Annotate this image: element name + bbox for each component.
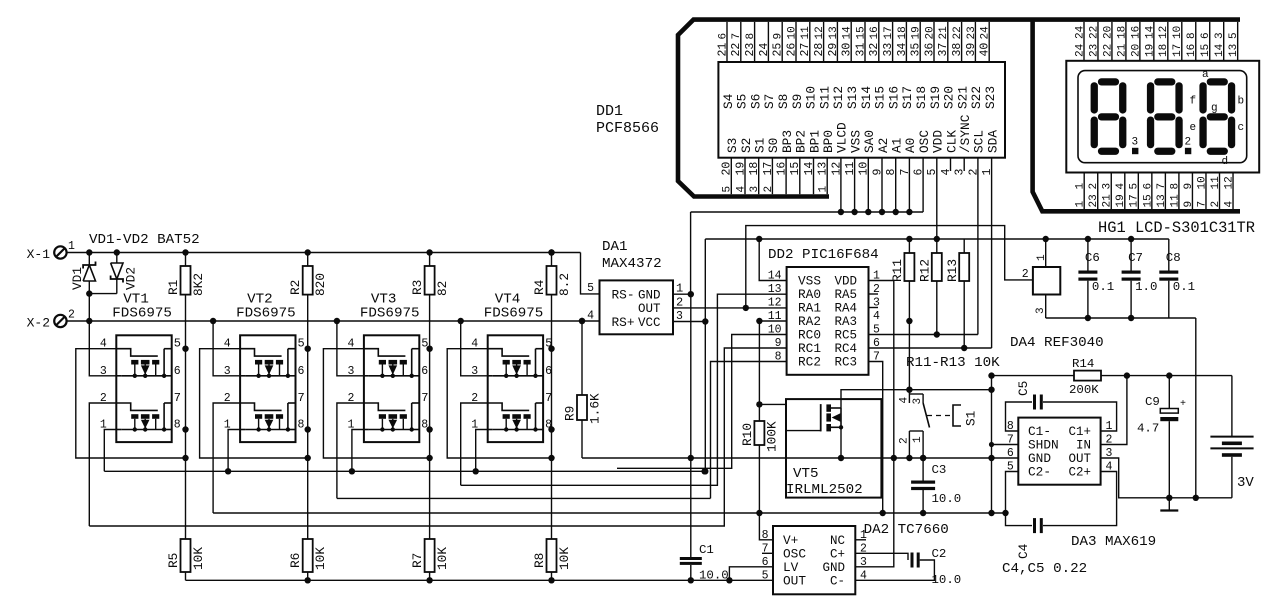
svg-text:C6: C6: [1085, 251, 1100, 265]
svg-text:17: 17: [883, 26, 895, 39]
svg-text:18: 18: [897, 26, 909, 39]
svg-text:c: c: [1238, 122, 1245, 134]
HG1 bottom pin 9: [1191, 173, 1193, 210]
resistor R7 10K: [425, 539, 435, 572]
IC DD2 PIC16F684 body: [787, 267, 869, 375]
wire VCC column: [704, 239, 706, 471]
HG1 bottom pin 7: [1164, 173, 1166, 210]
svg-text:14: 14: [842, 26, 854, 40]
wire gate2 bus VT4 to DD2 RA0: [461, 294, 787, 485]
wire DD2 RA2 pin11 to R10 column: [759, 321, 786, 421]
HG1 top pin 22: [1111, 22, 1113, 61]
svg-text:24: 24: [758, 43, 771, 57]
svg-text:17: 17: [762, 162, 775, 176]
svg-text:3: 3: [912, 398, 924, 405]
DD1 pin 14 (BP1): [813, 158, 815, 195]
svg-text:7: 7: [298, 391, 305, 405]
svg-text:RS+: RS+: [612, 315, 635, 330]
HG1 bottom pin 10: [1205, 173, 1207, 210]
HG1 top pin 14: [1223, 22, 1225, 61]
svg-text:8: 8: [174, 419, 181, 432]
svg-text:10.0: 10.0: [932, 492, 962, 506]
svg-text:8.2: 8.2: [557, 273, 572, 296]
wire R10 bottom to bus and DA2 V+: [758, 445, 760, 513]
wire VT2 pin4 gate link: [200, 349, 308, 458]
svg-text:7: 7: [421, 391, 428, 405]
svg-text:3V: 3V: [1237, 475, 1254, 491]
svg-text:39: 39: [965, 43, 978, 57]
DD1 pin 25 (S8): [781, 22, 783, 62]
HG1 top pin 13: [1237, 22, 1239, 61]
wire DA1 OUT pin2 to DD2 RA1: [673, 307, 787, 309]
wire gate2 bus VT1 to DD2 RC1: [89, 348, 786, 526]
wire RC0 line to DD2: [617, 335, 787, 469]
svg-text:22: 22: [1102, 44, 1114, 57]
svg-text:10: 10: [1172, 26, 1184, 39]
svg-text:82: 82: [435, 281, 450, 296]
svg-text:16: 16: [869, 26, 881, 39]
svg-text:S8: S8: [776, 94, 791, 109]
svg-text:21: 21: [1116, 43, 1128, 57]
svg-text:SDA: SDA: [985, 130, 1000, 153]
wire DA3 OUT to battery minus: [1101, 458, 1232, 498]
DD1 pin 33 (S16): [892, 22, 894, 62]
svg-text:NC: NC: [830, 534, 845, 548]
svg-text:10K: 10K: [313, 547, 328, 570]
svg-text:DA3 MAX619: DA3 MAX619: [1071, 534, 1156, 550]
svg-text:6: 6: [1142, 183, 1154, 190]
svg-text:VD2: VD2: [124, 267, 139, 290]
svg-text:34: 34: [896, 43, 909, 57]
svg-text:13: 13: [768, 283, 782, 296]
HG1 top pin 17: [1181, 22, 1183, 61]
DD1 pin 39 (S22): [974, 22, 976, 62]
svg-text:26: 26: [785, 43, 798, 57]
svg-text:OUT: OUT: [638, 302, 661, 316]
svg-text:IRLML2502: IRLML2502: [786, 482, 863, 498]
LCD decimal point 3: [1132, 148, 1138, 154]
wire source bus (VT pin1 common): [104, 470, 704, 472]
svg-text:1: 1: [676, 282, 683, 296]
svg-text:S11: S11: [817, 86, 832, 109]
svg-text:R11: R11: [890, 259, 905, 282]
resistor R11 10K: [906, 236, 912, 242]
HG1 top pin 19: [1153, 22, 1155, 61]
DD1 pin 16 (BP3): [785, 158, 787, 195]
svg-text:RC5: RC5: [834, 329, 857, 343]
svg-text:2: 2: [1185, 137, 1192, 149]
svg-text:24: 24: [1074, 43, 1086, 57]
svg-text:S19: S19: [928, 86, 943, 109]
svg-text:24: 24: [1074, 25, 1086, 39]
wire cap ground rail: [1046, 317, 1196, 319]
svg-text:20: 20: [721, 162, 734, 176]
wire R12 to RC5: [936, 281, 938, 335]
svg-text:S21: S21: [955, 86, 970, 109]
svg-text:R3: R3: [410, 280, 425, 295]
svg-text:4: 4: [735, 186, 747, 193]
wire DD2 VDD pin1 column: [855, 281, 894, 567]
svg-text:C4,C5 0.22: C4,C5 0.22: [1002, 561, 1087, 577]
resistor R4 8.2: [547, 266, 557, 295]
svg-text:40: 40: [979, 43, 992, 57]
svg-text:C3: C3: [932, 463, 947, 477]
svg-text:35: 35: [910, 43, 923, 57]
wire DD1 SDA column: [991, 158, 993, 348]
svg-text:5: 5: [174, 337, 181, 351]
HG1 bottom pin 4: [1124, 173, 1126, 210]
wire R3 to VT pins and gate bus: [429, 295, 431, 539]
DD1 /SYNC stub: [963, 158, 965, 171]
wire ground rail under DD1: [691, 211, 924, 213]
wire VT3 pin3 to X-2 rail: [337, 321, 364, 376]
svg-text:10: 10: [768, 324, 782, 337]
svg-text:11: 11: [1169, 194, 1181, 208]
svg-text:S9: S9: [790, 94, 805, 109]
svg-text:15: 15: [1200, 44, 1212, 57]
capacitor C8 0.1: [1168, 239, 1170, 271]
HG1 bottom pin 5: [1137, 173, 1139, 210]
svg-text:12: 12: [1223, 176, 1235, 189]
svg-text:C2-: C2-: [1028, 465, 1051, 480]
svg-text:14: 14: [768, 270, 782, 283]
svg-text:0.1: 0.1: [1092, 280, 1114, 294]
svg-text:HG1 LCD-S301C31TR: HG1 LCD-S301C31TR: [1098, 219, 1255, 237]
DD1 pin 40 (S23): [988, 22, 990, 62]
wire VT2 pin3 to X-2 rail: [213, 321, 240, 376]
svg-text:1.0: 1.0: [1135, 280, 1157, 294]
svg-text:S13: S13: [845, 86, 860, 109]
IC DA2 TC7660 body: [773, 526, 855, 594]
HG1 bottom pin 6: [1151, 173, 1153, 210]
svg-text:R4: R4: [532, 279, 547, 295]
svg-text:4: 4: [899, 397, 911, 404]
svg-text:7: 7: [1156, 183, 1168, 190]
DD1 pin 36 (S19): [933, 22, 935, 62]
diode VD1: [88, 253, 90, 266]
resistor R5 10K: [181, 539, 191, 572]
capacitor C3 10.0: [922, 458, 924, 481]
switch S1: [906, 387, 912, 393]
wire R2 to VT pins and gate bus: [307, 295, 309, 539]
svg-text:22: 22: [730, 43, 743, 57]
svg-text:R12: R12: [918, 259, 933, 282]
DD1 pin 31 (S14): [864, 22, 866, 62]
svg-text:15: 15: [1142, 194, 1154, 207]
wire DD2 RC2 riser: [711, 362, 787, 499]
svg-text:C4: C4: [1016, 543, 1031, 559]
capacitor C4 0.22: [1006, 472, 1033, 526]
svg-text:18: 18: [1158, 44, 1170, 57]
svg-text:18: 18: [748, 162, 761, 176]
svg-text:29: 29: [827, 43, 840, 57]
svg-text:25: 25: [772, 43, 785, 57]
IC DA4 REF3040 body: [1033, 267, 1060, 295]
svg-text:+: +: [1180, 399, 1186, 410]
wire DD2 RC4 pin6 to SDA: [869, 347, 992, 349]
transistor VT3 FDS6975 package: [364, 335, 419, 442]
svg-text:R5: R5: [166, 553, 181, 568]
DD1 pin 20 (S3): [730, 158, 732, 195]
ground symbol: [1168, 498, 1170, 511]
DD1 pin 28 (S11): [823, 22, 825, 62]
svg-text:S10: S10: [804, 86, 819, 109]
svg-text:33: 33: [882, 43, 895, 57]
wire R3 column: [429, 253, 431, 267]
DD1 pin 38 (S21): [961, 22, 963, 62]
resistor R1 8K2: [181, 266, 191, 295]
svg-text:S23: S23: [983, 86, 998, 109]
svg-text:31: 31: [854, 43, 867, 57]
wire ground column to C1: [690, 294, 692, 557]
svg-text:17: 17: [1129, 194, 1141, 207]
wire R9 to ground rail: [581, 420, 583, 458]
capacitor C7 1.0: [1130, 239, 1132, 271]
svg-text:20: 20: [1130, 44, 1142, 57]
svg-text:8: 8: [762, 529, 769, 542]
wire R4 column: [551, 253, 553, 267]
wire VT3 pin4 gate link: [323, 349, 429, 458]
svg-text:GND: GND: [638, 289, 661, 303]
shdn column: [991, 376, 993, 513]
svg-text:15: 15: [789, 162, 802, 176]
VT5 drain/source connections: [831, 407, 841, 409]
svg-text:R1: R1: [166, 279, 181, 295]
DA2 NC stub: [855, 539, 866, 541]
svg-text:C2+: C2+: [1068, 466, 1091, 480]
svg-text:RC3: RC3: [834, 356, 857, 370]
wire DD2 RC5 pin5 to SCL: [869, 334, 978, 336]
svg-text:S12: S12: [831, 86, 846, 109]
LCD digit 3: [1207, 78, 1228, 85]
capacitor C2 10.0: [911, 553, 914, 568]
wire DD2 VSS riser: [759, 239, 786, 281]
transistor VT1 FDS6975 package: [116, 335, 171, 442]
svg-text:14: 14: [1144, 25, 1156, 39]
svg-text:S5: S5: [735, 94, 750, 109]
svg-text:S15: S15: [873, 86, 888, 109]
svg-text:FDS6975: FDS6975: [484, 306, 544, 322]
svg-text:20: 20: [924, 26, 936, 39]
svg-text:3: 3: [860, 556, 867, 569]
svg-text:b: b: [1238, 96, 1245, 108]
wire DA4 pin3 to cap rail: [1045, 295, 1047, 319]
DD1 pin 26 (S9): [795, 22, 797, 62]
svg-text:22: 22: [1088, 26, 1100, 39]
resistor R13 10K: [963, 239, 965, 253]
svg-text:17: 17: [1172, 44, 1184, 57]
svg-text:FDS6975: FDS6975: [360, 306, 420, 322]
svg-text:S18: S18: [914, 86, 929, 109]
DD1 pin 27 (S10): [809, 22, 811, 62]
svg-text:9: 9: [773, 33, 785, 40]
wire R11 to RA3 and S1: [908, 281, 910, 390]
svg-text:28: 28: [813, 43, 826, 57]
resistor R12 10K: [936, 239, 938, 253]
svg-text:VCC: VCC: [638, 316, 661, 330]
wire VT4 pin2 riser: [461, 403, 488, 485]
svg-text:9: 9: [1183, 201, 1195, 208]
svg-text:13: 13: [1228, 44, 1240, 57]
svg-text:1.6K: 1.6K: [588, 393, 603, 424]
VT5 substrate arrow: [832, 413, 841, 422]
wire R6 to ground rail: [307, 572, 309, 580]
svg-text:C+: C+: [830, 548, 845, 562]
svg-text:6: 6: [174, 365, 181, 378]
svg-text:MAX4372: MAX4372: [602, 256, 662, 272]
svg-text:C-: C-: [830, 575, 845, 589]
svg-text:S16: S16: [886, 86, 901, 109]
svg-text:2: 2: [763, 186, 775, 193]
capacitor C9 4.7 (polarized): [1168, 376, 1170, 409]
svg-text:11: 11: [1210, 176, 1222, 190]
svg-text:a: a: [1202, 69, 1209, 81]
svg-text:24: 24: [980, 26, 992, 40]
DD2 pin3 RA4 stub: [869, 307, 879, 309]
wire DA2 LV to ground: [729, 567, 773, 581]
svg-text:10: 10: [786, 26, 798, 39]
wire VT3 pin1 riser: [352, 430, 364, 472]
wire DD2 RC3 pin7 riser: [869, 362, 883, 514]
DD1 pin 30 (S13): [850, 22, 852, 62]
svg-text:C1: C1: [699, 543, 714, 557]
svg-text:OUT: OUT: [783, 574, 806, 589]
wire DA3 IN to R14 net: [1101, 376, 1127, 445]
LCD digit 1: [1098, 78, 1119, 85]
svg-text:21: 21: [938, 26, 950, 40]
wire R7 to ground rail: [429, 572, 431, 580]
svg-text:DD2 PIC16F684: DD2 PIC16F684: [768, 247, 879, 263]
svg-text:R10: R10: [740, 423, 755, 446]
svg-text:12: 12: [814, 26, 826, 39]
HG1 bottom pin 3: [1110, 173, 1112, 210]
svg-text:8: 8: [745, 33, 757, 40]
wire DD1 VDD column: [936, 158, 938, 239]
svg-text:C7: C7: [1128, 251, 1143, 265]
LCD module outline left (around DD1): [678, 20, 1240, 197]
svg-text:S4: S4: [721, 93, 736, 109]
svg-text:RA5: RA5: [834, 288, 857, 302]
svg-text:FDS6975: FDS6975: [236, 306, 296, 322]
svg-text:14: 14: [803, 162, 816, 176]
HG1 top pin 20: [1139, 22, 1141, 61]
svg-text:16: 16: [1130, 26, 1142, 39]
svg-text:19: 19: [1115, 194, 1127, 207]
DD1 pin 21 (S4): [726, 22, 728, 62]
svg-text:VT5: VT5: [793, 466, 819, 482]
svg-text:37: 37: [937, 43, 950, 57]
svg-text:30: 30: [841, 43, 854, 57]
svg-text:20: 20: [1102, 26, 1114, 39]
wire R5 to ground rail: [185, 572, 187, 580]
HG1 top pin 21: [1125, 22, 1127, 61]
resistor R9 1.6K: [577, 395, 587, 420]
svg-text:R11-R13 10K: R11-R13 10K: [906, 355, 1000, 371]
svg-text:S20: S20: [942, 86, 957, 109]
capacitor C5 0.22: [1006, 402, 1033, 431]
svg-text:X-1: X-1: [27, 247, 51, 262]
wire VT1 pin3 to X-2 rail: [89, 321, 116, 376]
wire DD1 OSC down: [922, 158, 924, 212]
svg-text:RA4: RA4: [834, 302, 857, 316]
wire gate bus VT2 / charge pump line: [213, 512, 1005, 514]
HG1 bottom pin 11: [1219, 173, 1221, 210]
svg-text:VD1: VD1: [70, 267, 85, 290]
wire R8 to ground rail: [551, 572, 553, 580]
svg-text:23: 23: [744, 43, 757, 57]
svg-text:RC2: RC2: [798, 355, 821, 370]
svg-text:10: 10: [1196, 176, 1208, 189]
svg-text:16: 16: [1186, 44, 1198, 57]
DD1 pin 22 (S5): [740, 22, 742, 62]
svg-text:8: 8: [298, 419, 305, 432]
svg-text:16: 16: [776, 162, 789, 176]
resistor R3 82: [425, 266, 435, 295]
LCD HG1 body: [1066, 61, 1259, 173]
svg-text:C8: C8: [1166, 251, 1181, 265]
svg-text:8: 8: [1186, 32, 1198, 39]
svg-text:R8: R8: [532, 553, 547, 568]
resistor R2 820: [303, 266, 313, 295]
terminal X-2: [54, 315, 66, 327]
VT5 gate bar: [820, 404, 822, 431]
wire R4 to VT pins and gate bus: [551, 295, 553, 539]
svg-text:R2: R2: [288, 280, 303, 295]
resistor R8 10K: [547, 539, 557, 572]
svg-text:1: 1: [1075, 201, 1087, 208]
svg-text:GND: GND: [822, 561, 845, 575]
svg-text:19: 19: [1144, 44, 1156, 57]
HG1 top pin 24: [1083, 22, 1085, 61]
svg-text:R6: R6: [288, 553, 303, 568]
wire DD1 SCL column: [977, 158, 979, 335]
wire OUT riser to ref rail: [746, 226, 1033, 308]
svg-text:R9: R9: [563, 406, 578, 421]
DD1 pin 15 (BP2): [799, 158, 801, 195]
wire VT5 gate from R10 column: [759, 404, 820, 430]
DD1 pin 34 (S17): [905, 22, 907, 62]
VT5 channel segments: [826, 404, 831, 411]
transistor VT2 FDS6975 package: [240, 335, 295, 442]
svg-text:RS-: RS-: [612, 288, 635, 303]
svg-text:2: 2: [1088, 183, 1100, 190]
svg-text:S7: S7: [762, 94, 777, 109]
svg-text:23: 23: [966, 26, 978, 39]
wire gate2 bus VT3: [337, 497, 711, 499]
svg-text:f: f: [1190, 96, 1197, 108]
svg-text:18: 18: [1116, 26, 1128, 39]
svg-text:0.1: 0.1: [1173, 280, 1195, 294]
svg-text:S22: S22: [969, 86, 984, 109]
wire VT5 source to ground rail: [840, 427, 842, 458]
LCD module outline divider and bottom (around HG1): [1033, 20, 1240, 212]
HG1 top pin 16: [1195, 22, 1197, 61]
svg-text:DA2 TC7660: DA2 TC7660: [864, 522, 949, 538]
svg-text:S1: S1: [964, 410, 979, 426]
svg-text:5: 5: [298, 337, 305, 351]
svg-text:100K: 100K: [765, 421, 780, 452]
svg-text:4: 4: [1223, 201, 1235, 208]
DD1 pin 23 (S6): [754, 22, 756, 62]
HG1 bottom pin 12: [1232, 173, 1234, 210]
svg-text:OUT: OUT: [1068, 452, 1091, 466]
svg-text:200K: 200K: [1069, 383, 1099, 397]
wire ground rail to DA3 GND: [992, 457, 1019, 459]
svg-text:C5: C5: [1016, 381, 1031, 396]
svg-text:12: 12: [768, 297, 782, 310]
svg-text:X-2: X-2: [27, 316, 50, 331]
DD1 pin 19 (S2): [744, 158, 746, 195]
